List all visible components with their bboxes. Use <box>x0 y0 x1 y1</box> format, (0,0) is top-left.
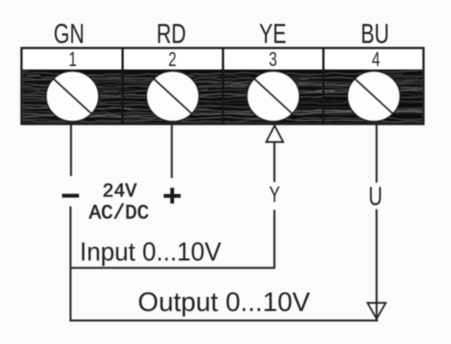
svg-text:24V: 24V <box>102 181 137 203</box>
minus polarity symbol <box>62 194 79 198</box>
wire W1 upper (terminal 1 down to minus) <box>70 124 72 176</box>
wire W3 lower with corner to input line <box>71 210 275 268</box>
svg-text:BU: BU <box>361 19 389 50</box>
svg-text:YE: YE <box>259 19 286 50</box>
svg-text:1: 1 <box>69 48 77 71</box>
wire W1 lower (minus down through input junction to output line) <box>71 207 379 321</box>
svg-text:Y: Y <box>269 182 280 207</box>
svg-text:3: 3 <box>269 48 277 71</box>
wire W4 upper (terminal 4 down to U) <box>376 124 378 183</box>
cell divider between terminal 2 and 3 <box>222 48 224 124</box>
screw terminal 1 <box>46 71 99 121</box>
terminal block body (outer frame with number strip) <box>22 48 424 124</box>
svg-text:Input 0...10V: Input 0...10V <box>80 238 221 267</box>
screw terminal 4 <box>347 71 400 121</box>
svg-text:4: 4 <box>372 48 380 71</box>
svg-text:2: 2 <box>168 48 176 71</box>
svg-text:RD: RD <box>157 19 187 50</box>
wire W3 upper (arrow down to Y) <box>273 142 275 182</box>
cell divider between terminal 3 and 4 <box>322 48 324 124</box>
terminal block black band (textured) <box>17 63 441 125</box>
screw terminal 2 <box>146 71 199 121</box>
svg-text:Output 0...10V: Output 0...10V <box>138 287 310 317</box>
output arrowhead (open triangle down) <box>368 303 386 319</box>
wire W4 lower (U down to output arrow) <box>376 209 378 319</box>
screw terminal 3 <box>247 71 300 121</box>
svg-text:U: U <box>369 181 383 211</box>
plus polarity symbol <box>164 188 181 204</box>
wire W2 (terminal 2 down to plus) <box>171 124 173 178</box>
input arrowhead at terminal 3 (open triangle up) <box>266 126 283 142</box>
svg-text:GN: GN <box>54 19 85 50</box>
svg-text:AC/DC: AC/DC <box>89 203 149 226</box>
cell divider between terminal 1 and 2 <box>121 48 123 124</box>
